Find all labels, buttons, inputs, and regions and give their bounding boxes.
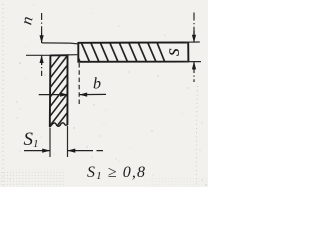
svg-text:b: b: [93, 76, 101, 93]
s extension ticks: [185, 42, 202, 62]
dashed extension of sheet left edge downward: [78, 63, 80, 105]
horizontal sheet outline: [78, 42, 188, 61]
svg-text:S1 ≥ 0,8: S1 ≥ 0,8: [87, 164, 146, 182]
halftone patch bottom-left: [0, 170, 64, 188]
halftone dots bottom-right: [150, 176, 208, 187]
b dimension arrows: [39, 94, 68, 96]
vertical sheet hatching: [49, 44, 69, 137]
scan speckle noise: [2, 4, 4, 186]
n arrow up: [40, 55, 44, 63]
s dimension line right (dash-dot vertical): [193, 13, 195, 37]
horizontal sheet hatching: [72, 42, 166, 63]
s arrow up: [192, 61, 196, 69]
svg-text:s: s: [160, 48, 184, 56]
vertical sheet outline: [50, 55, 68, 126]
s arrow down: [192, 35, 196, 43]
n arrow down: [40, 35, 44, 43]
svg-text:S1: S1: [24, 129, 39, 150]
vertical sheet break (wavy) line: [50, 123, 67, 127]
vertical sheet top edge extension, right side: [68, 54, 78, 56]
vertical sheet top edge extension, left side: [26, 54, 50, 56]
S1 dimension (bottom): [50, 126, 68, 157]
random specks: [10, 4, 207, 185]
n dimension line (dash-dot vertical): [41, 13, 43, 38]
svg-text:n: n: [18, 15, 36, 26]
top surface extension line (left of sheet): [42, 43, 78, 44]
